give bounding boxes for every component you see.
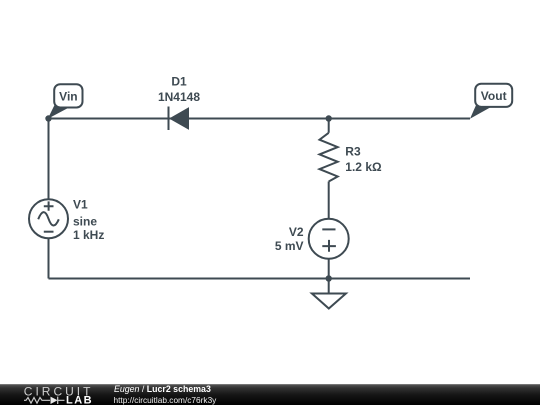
svg-text:1.2 kΩ: 1.2 kΩ (345, 160, 382, 174)
svg-text:Eugen / Lucr2 schema3: Eugen / Lucr2 schema3 (114, 384, 211, 394)
logo diode symbol (51, 397, 58, 404)
wire bottom rail (49, 278, 471, 280)
svg-text:V2: V2 (289, 225, 304, 239)
svg-text:Vin: Vin (59, 90, 77, 104)
node R3 top junction dot (326, 115, 332, 121)
svg-text:sine: sine (73, 214, 97, 228)
svg-text:1N4148: 1N4148 (158, 90, 200, 104)
diode D1 (169, 107, 189, 131)
ground (312, 294, 346, 309)
svg-text:D1: D1 (171, 75, 187, 89)
svg-text:5 mV: 5 mV (275, 239, 304, 253)
svg-text:Vout: Vout (481, 89, 507, 103)
voltage source V1 (sine) (29, 199, 68, 238)
wire ground stub (328, 279, 330, 294)
footer bar (0, 384, 540, 405)
svg-text:V1: V1 (73, 198, 88, 212)
node label Vin (callout) (48, 84, 83, 119)
logo resistor squiggle (24, 398, 50, 404)
wire V2 bottom to bottom rail (328, 259, 330, 279)
node V2 bottom junction dot (326, 275, 332, 281)
node label Vout (callout) (470, 84, 512, 119)
resistor R3 (320, 133, 338, 182)
wire left vertical from Vin node to V1 top (48, 119, 50, 200)
node Vin junction dot (45, 115, 51, 121)
wire V1 bottom to bottom rail (48, 239, 50, 279)
svg-text:1 kHz: 1 kHz (73, 228, 104, 242)
svg-text:http://circuitlab.com/c76rk3y: http://circuitlab.com/c76rk3y (114, 395, 218, 405)
wire R3 branch top (328, 119, 330, 133)
svg-text:LAB: LAB (66, 394, 93, 405)
wire top rail from Vin node to Vout node (49, 118, 471, 120)
wire R3 bottom to V2 top (328, 182, 330, 219)
svg-text:R3: R3 (345, 145, 361, 159)
voltage source V2 (309, 219, 349, 259)
